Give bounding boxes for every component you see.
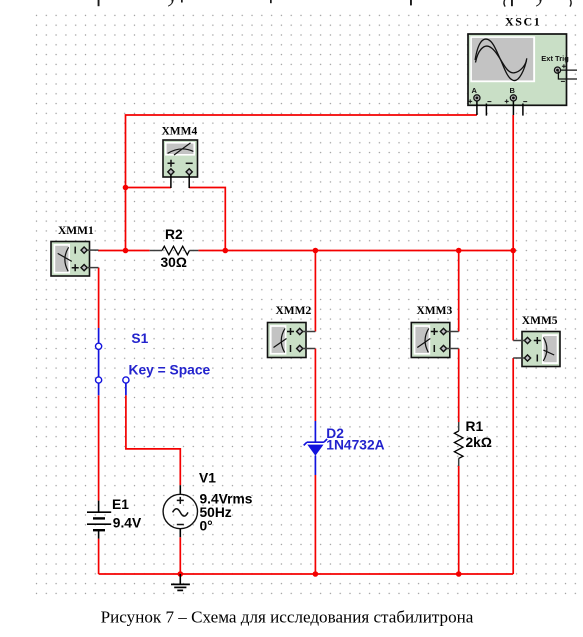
multimeter XMM2 [268,305,316,358]
multimeter XMM3 [411,305,458,358]
junction at D2 branch / main bus [313,248,319,254]
svg-text:9.4V: 9.4V [113,516,142,531]
pin XMM2 - (bottom) [303,348,316,350]
resistor R2 30 Ohm (horizontal, in main bus) [150,227,199,270]
junction at ground / bottom bus [178,571,184,577]
zener diode D2 1N4732A [304,421,385,475]
pin XMM1 + (bottom) [87,267,98,269]
wire: switch S1 to E1 battery [98,395,100,500]
pin XMM4 + [170,175,172,188]
AC source V1 9.4Vrms 50Hz 0deg [163,470,253,537]
wire: switch S1 right throw to V1 source [126,395,180,485]
junction at R1 branch / bottom bus [456,571,462,577]
wire: bottom bus [99,573,514,575]
svg-text:XMM1: XMM1 [58,225,94,237]
wire: R1 branch middle (XMM3 - to R1) [458,349,460,423]
pin B- [522,104,524,116]
resistor R1 2kOhm (vertical) [454,419,492,466]
svg-text:E1: E1 [112,497,129,512]
svg-text:XMM3: XMM3 [417,305,453,317]
svg-text:V1: V1 [199,470,216,485]
wire: scope B vertical upper [512,115,514,251]
pin A+ [476,101,478,115]
junction at left loop / main bus [123,248,129,254]
pin A- [485,104,487,116]
pin XMM1 - (top) [87,249,98,251]
wire: main horizontal bus (R2 right lead to scope-B vertical) [198,250,513,252]
junction at R1 branch / main bus [456,248,462,254]
wire: R1 branch upper (bus to XMM3 +) [458,251,460,332]
pin XMM3 + (top) [447,331,459,333]
wire: scope B vertical to XMM5 + terminal [512,251,514,341]
svg-text:2kΩ: 2kΩ [466,435,492,450]
svg-text:Ext Trig: Ext Trig [541,54,569,63]
battery E1 9.4V [87,497,142,539]
pin XMM2 + (top) [303,331,316,333]
pin XMM4 - [188,175,190,188]
wire: D2 branch middle (XMM2 - to D2) [314,349,316,422]
wire: XMM4 loop left segment [126,187,171,189]
svg-text:Рисунок 7 – Схема для исследов: Рисунок 7 – Схема для исследования стаби… [101,608,474,627]
svg-text:Key = Space: Key = Space [129,362,211,377]
ground [171,574,190,590]
svg-text:XSC1: XSC1 [505,15,541,29]
wire: D2 branch upper (bus to XMM2 +) [314,251,316,332]
svg-text:B: B [510,86,516,95]
svg-text:0°: 0° [200,518,213,533]
svg-text:30Ω: 30Ω [161,255,187,270]
wire: XMM4 loop right segment [189,188,225,251]
svg-text:1N4732A: 1N4732A [326,437,384,452]
svg-text:XMM5: XMM5 [522,315,558,327]
wire: V1 source to bottom bus [179,537,181,574]
svg-text:XMM2: XMM2 [276,305,312,317]
wire: XMM1 - terminal down to switch S1 [98,268,100,328]
multimeter XMM1 [51,225,99,276]
junction at D2 branch / bottom bus [313,571,319,577]
pin XMM3 - (bottom) [447,348,459,350]
cropped text line (top of page, descender fragments) [98,0,572,7]
junction at XMM4 drop / main bus [223,248,229,254]
oscilloscope XSC1 [468,15,577,116]
wire: top horizontal net (scope A to left loop) [126,115,477,251]
junction at scope-B vertical / main bus [510,248,516,254]
pin B+ [512,101,514,115]
multimeter XMM5 [513,315,560,366]
multimeter XMM4 [162,125,198,188]
svg-text:XMM4: XMM4 [162,125,198,137]
svg-text:A: A [472,86,478,95]
junction at left loop / XMM4 wire [123,185,129,191]
wire: E1 battery to bottom bus [98,539,100,574]
svg-text:S1: S1 [131,331,148,346]
wire: XMM5 - terminal to bottom bus [512,358,514,574]
wire: D2 branch lower (D2 to bottom bus) [314,475,316,574]
pin XMM5 - (bottom) [513,357,524,359]
svg-text:R2: R2 [165,227,183,242]
switch S1 (SPDT, Key = Space) [96,328,211,395]
svg-text:R1: R1 [466,419,484,434]
wire: R1 branch lower (R1 to bottom bus) [458,466,460,574]
pin XMM5 + (top) [513,340,524,342]
wire: main horizontal bus (left part, to R2 left lead) [98,250,150,252]
